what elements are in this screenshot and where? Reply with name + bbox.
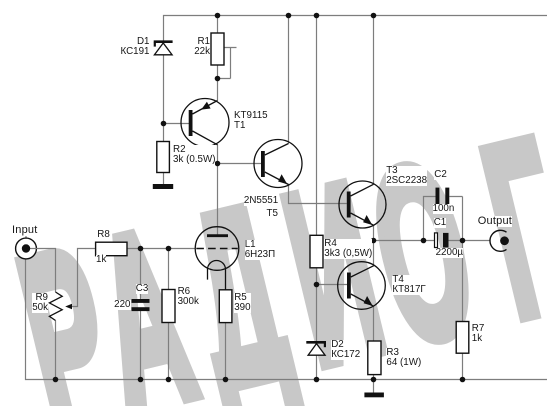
resistor R6: [162, 290, 175, 323]
transistor T4 (КТ817Г, NPN): [338, 262, 386, 310]
wire output line: [374, 240, 435, 242]
node rail-R5: [223, 377, 229, 383]
resistor R4: [310, 235, 323, 267]
label T4 / КТ817Г: [392, 275, 425, 295]
resistor R5: [219, 290, 232, 323]
capacitor C3: [132, 299, 150, 311]
diode D2 (КС172 zener): [306, 342, 326, 355]
label R4 / 3k3 (0,5W): [324, 239, 372, 259]
resistor R2: [157, 142, 170, 173]
wire D2 to rail: [316, 355, 318, 380]
wire R6 column: [168, 249, 170, 380]
transistor T3 (2SC2238, NPN): [339, 181, 386, 228]
potentiometer R9: [49, 292, 72, 321]
transistor T1 (KT9115, PNP): [181, 99, 229, 147]
wire output node to T4 collector: [373, 241, 375, 267]
label R6 / 300k: [178, 287, 199, 307]
node R6 top: [166, 246, 172, 252]
wire T5 collector to rail: [288, 16, 290, 144]
wire T1 base: [164, 123, 190, 125]
label KT9115 / T1: [234, 111, 268, 131]
node D1-T1 base: [161, 121, 167, 127]
label R7 / 1k: [472, 324, 485, 344]
ground (main): [364, 393, 384, 398]
node rail-R7: [460, 377, 466, 383]
transistor T5 (2N5551, NPN): [254, 140, 302, 188]
label R1 / 22k: [194, 37, 210, 57]
label Input: [12, 225, 37, 236]
resistor R7: [456, 322, 469, 354]
label D1 / КС191: [120, 37, 149, 57]
node rail-R4: [314, 13, 320, 19]
node R1 tap: [215, 76, 221, 82]
label T5: [267, 209, 278, 219]
wire C1 right to jack: [449, 240, 491, 242]
label R5 / 390: [234, 293, 250, 313]
label C3: [136, 284, 149, 294]
node rail-C3: [138, 377, 144, 383]
node rail-R3-gnd: [371, 377, 377, 383]
wire C3 column: [140, 249, 142, 380]
wire R2 to ground: [163, 173, 165, 185]
label R8: [97, 230, 110, 240]
wire T4 base: [317, 284, 348, 286]
wire bottom rail: [26, 259, 547, 380]
wire R9 wiper to R8: [68, 249, 96, 307]
capacitor C1 (2200µ electrolytic): [435, 233, 449, 248]
wire R8 right to tube grid: [127, 248, 195, 250]
wire C2 left branch: [424, 197, 436, 241]
wire input jack to R9: [26, 236, 56, 293]
label 2N5551: [244, 196, 278, 206]
wire top rail: [164, 16, 547, 42]
wire base junction to R2: [163, 124, 165, 142]
node rail-T3c: [371, 13, 377, 19]
node rail-D2: [314, 377, 320, 383]
wire T3 emitter to output node: [373, 225, 375, 241]
wire R1 bottom: [217, 65, 219, 101]
wire T5 emitter to T3 base: [289, 184, 347, 204]
wire D2 node down to D2: [316, 285, 318, 342]
label R9 / 50k: [32, 293, 48, 313]
label R2 / 3k (0.5W): [173, 145, 215, 165]
label 2200µ: [436, 248, 463, 258]
output jack: [490, 230, 509, 251]
wire R4 to D2 node: [316, 268, 318, 285]
node rail-R1: [215, 13, 221, 19]
label 100n: [433, 204, 455, 214]
wire D1 bottom to base junction: [163, 55, 165, 124]
label C2: [434, 170, 447, 180]
wire C2 right branch: [449, 197, 462, 241]
label C1: [434, 218, 447, 228]
wire R1 tap: [218, 48, 237, 79]
wire R5 bottom: [225, 323, 227, 380]
wire rail to R4: [316, 16, 318, 236]
wire T4 emitter to R3: [373, 306, 375, 341]
label D2 / КС172: [331, 340, 360, 360]
ground (R2): [153, 184, 173, 189]
diode D1 (КС191 zener): [154, 42, 173, 55]
node T1c-T5 base: [215, 161, 221, 167]
label 1k (R8): [96, 255, 106, 265]
label Output: [478, 216, 512, 227]
resistor R8: [96, 242, 127, 256]
wire T3 collector to rail: [373, 16, 375, 185]
capacitor C2: [436, 188, 450, 206]
label 220: [114, 300, 130, 310]
input jack: [16, 238, 37, 259]
label R3 / 64 (1W): [386, 348, 421, 368]
resistor R3: [368, 341, 381, 375]
node T3e-T4c output: [371, 238, 377, 244]
resistor R1: [211, 33, 224, 65]
node rail-R6: [166, 377, 172, 383]
wire R7 column: [462, 241, 464, 380]
node R4-D2-T4 base: [314, 282, 320, 288]
node rail-T5c: [286, 13, 292, 19]
label T3 / 2SC2238: [386, 166, 427, 186]
label L1 / 6Н23П: [245, 240, 275, 260]
node R8-C3: [138, 246, 144, 252]
wire R9 bottom: [55, 321, 57, 380]
tube L1 (6Н23П triode): [195, 227, 239, 290]
wire ground stem: [373, 380, 375, 393]
node rail-R9: [53, 377, 59, 383]
wire T1 collector down / T5 base / tube anode: [218, 145, 262, 236]
node C2 right-R7: [460, 238, 466, 244]
node C2 left: [421, 238, 427, 244]
wire R3 to rail: [373, 375, 375, 380]
wire rail to R1: [217, 16, 219, 34]
